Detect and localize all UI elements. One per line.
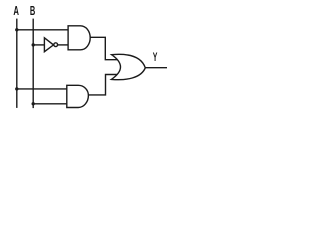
svg-text:Y: Y (153, 51, 158, 64)
svg-text:B: B (30, 5, 35, 18)
svg-text:A: A (13, 5, 19, 18)
